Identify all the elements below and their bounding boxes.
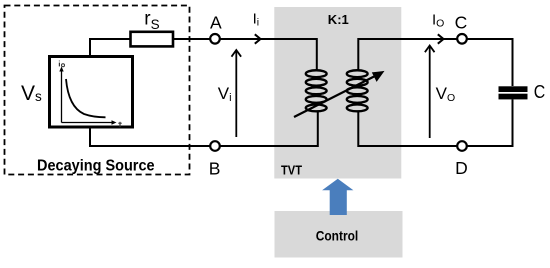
terminal A — [210, 34, 220, 44]
svg-text:Vi: Vi — [218, 84, 232, 104]
voltage source Vs box — [50, 57, 133, 128]
capacitor C plate bottom — [499, 94, 528, 100]
graph label t — [118, 122, 122, 127]
wire secondary top to C — [358, 39, 457, 71]
svg-text:Control: Control — [316, 228, 359, 243]
svg-text:Vs: Vs — [21, 82, 42, 105]
svg-text:D: D — [455, 158, 468, 178]
wire primary bottom to B — [220, 111, 318, 147]
TVT block — [274, 7, 401, 179]
svg-text:K:1: K:1 — [328, 12, 349, 27]
source decay curve — [66, 79, 106, 117]
current arrow Ii — [255, 34, 261, 43]
svg-text:A: A — [210, 13, 222, 33]
svg-text:B: B — [209, 158, 221, 178]
wire C to capacitor — [467, 39, 513, 86]
wire primary top — [274, 39, 317, 71]
svg-text:TVT: TVT — [281, 163, 302, 178]
svg-text:IO: IO — [432, 12, 444, 30]
variable transformer arrow — [294, 75, 378, 118]
secondary winding — [347, 70, 368, 111]
voltage arrow Vo — [429, 47, 431, 139]
svg-text:VO: VO — [436, 84, 456, 104]
decaying source enclosure — [5, 6, 190, 175]
control arrow — [322, 179, 353, 215]
wire B to source bottom — [90, 128, 210, 147]
terminal B — [210, 141, 220, 151]
wire A to TVT — [220, 38, 275, 40]
capacitor C plate top — [499, 86, 528, 92]
terminal D — [457, 141, 467, 151]
svg-text:Ii: Ii — [253, 10, 260, 28]
wire source top to resistor — [90, 39, 130, 57]
wire secondary bottom to D — [358, 111, 457, 147]
primary winding — [306, 70, 327, 111]
terminal C — [457, 34, 467, 44]
svg-text:C: C — [455, 13, 468, 33]
svg-text:rS: rS — [144, 9, 159, 32]
svg-text:C: C — [534, 81, 546, 102]
wire resistor to A — [173, 38, 210, 40]
current arrow Io — [438, 34, 444, 43]
svg-text:Decaying Source: Decaying Source — [37, 158, 155, 175]
voltage arrow Vi — [235, 51, 237, 137]
wire capacitor to D — [467, 99, 513, 146]
graph label i0 — [59, 61, 64, 67]
control block — [275, 211, 403, 258]
resistor rS — [131, 32, 174, 47]
source graph axes — [62, 70, 114, 123]
